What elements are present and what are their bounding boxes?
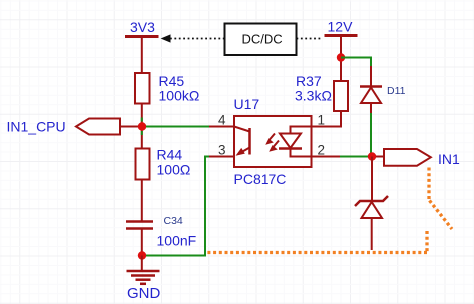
wire green GND node to pin3 [146,157,209,256]
svg-text:D11: D11 [387,85,406,97]
DC/DC box [225,24,297,56]
opto box [234,116,312,167]
svg-text:12V: 12V [328,19,354,35]
light arrow 1 [270,134,276,141]
svg-text:DC/DC: DC/DC [242,32,283,47]
svg-text:IN1_CPU: IN1_CPU [7,119,66,135]
capacitor C34 [126,220,153,223]
port IN1 [384,149,431,166]
wire C34 to GND node [141,229,143,256]
wire green nub above node [141,118,143,122]
wire 12V down [340,36,342,82]
wire IN1 node down to zener [371,157,373,202]
svg-text:4: 4 [218,112,226,127]
junction IN1 node [368,152,376,160]
wire port to junction [120,126,142,128]
svg-text:100nF: 100nF [157,232,197,248]
diode D11 [370,66,372,87]
dashed arrow to DC/DC (left) [161,34,171,42]
wire node to port IN1 [376,156,384,158]
svg-text:2: 2 [318,142,326,157]
wire green node to pin4 [146,126,209,128]
junction 12V node [337,53,345,61]
svg-text:1: 1 [318,112,326,127]
svg-text:R44: R44 [157,147,183,163]
power port 3V3 bar [125,35,159,38]
LED inside U17 [291,127,312,134]
power port 12V bar [325,34,358,37]
wire R37 bottom to pin1 [312,111,342,127]
resistor R45 [135,73,150,104]
svg-text:3: 3 [218,142,226,157]
svg-text:100kΩ: 100kΩ [159,87,200,103]
svg-text:PC817C: PC817C [234,171,287,187]
svg-text:U17: U17 [234,96,260,112]
pin 1 stub [312,126,338,128]
junction IN1_CPU node [138,122,146,130]
zener diode [355,196,388,206]
junction GND node [138,251,146,259]
dashed line DC/DC to 12V (right) [297,38,323,40]
svg-text:IN1: IN1 [438,151,460,167]
wire zener to bottom [371,218,373,250]
wire green 12V node to D11 [341,58,371,67]
svg-text:C34: C34 [164,215,183,227]
phototransistor inside U17 [248,128,251,155]
svg-text:100Ω: 100Ω [157,161,191,177]
resistor R44 [136,149,150,180]
wire R44 to C34 [141,180,143,222]
orange unrouted wire from IN1 [207,168,452,253]
pin 3 stub [209,156,234,158]
wire green D11 to IN1 node [370,113,372,157]
svg-text:GND: GND [127,285,161,302]
resistor R37 [334,81,348,111]
ground symbol [141,256,143,272]
wire green pin2 to IN1 node [340,156,372,158]
wire green nub below node [141,131,143,135]
pin 2 stub [312,156,341,158]
svg-text:3V3: 3V3 [130,19,155,35]
svg-text:3.3kΩ: 3.3kΩ [295,88,332,104]
pin 4 stub [209,126,234,128]
wire R45 to R44 [141,104,143,149]
wire 3V3 to R45 [141,37,143,74]
light arrow 2 [274,141,280,148]
